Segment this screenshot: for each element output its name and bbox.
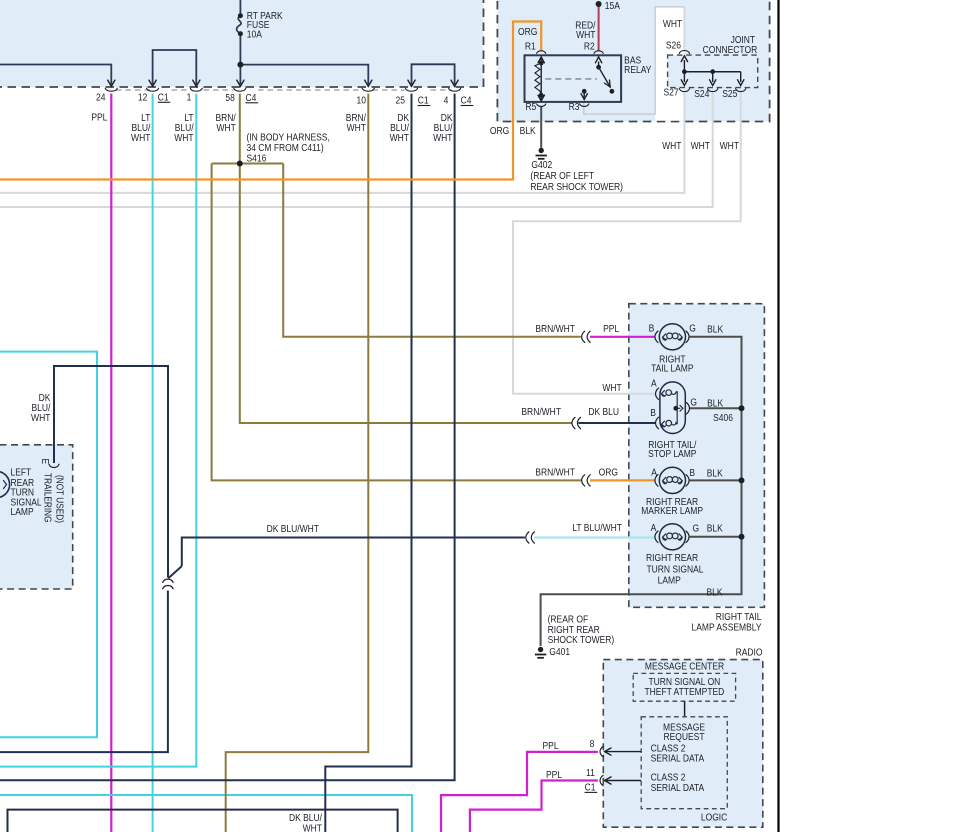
wire LT BLU/WHT from pin 12 bbox=[152, 94, 154, 832]
joint connector arrow up to S26 bbox=[683, 60, 685, 72]
svg-text:WHT: WHT bbox=[347, 122, 367, 133]
svg-text:LOGIC: LOGIC bbox=[701, 812, 728, 823]
pin 25 bbox=[405, 88, 417, 91]
svg-text:TURN SIGNAL: TURN SIGNAL bbox=[646, 564, 703, 575]
svg-text:S25: S25 bbox=[722, 88, 737, 99]
fuse RT PARK FUSE 10A bbox=[239, 0, 241, 16]
svg-text:BLK: BLK bbox=[707, 324, 724, 335]
svg-text:WHT: WHT bbox=[602, 382, 622, 393]
white overlap strip behind WHT/S26 labels bbox=[655, 6, 684, 120]
radio pin 11 bbox=[600, 775, 603, 785]
right rear marker lamp bulb bbox=[659, 467, 685, 493]
wire BLK from relay R5 to ground G402 bbox=[540, 106, 542, 148]
splice S25 pin bbox=[736, 89, 746, 92]
wire DK BLU/WHT turn signal feed branch bbox=[182, 538, 525, 567]
wire staple pins 12 and 1 bbox=[153, 50, 197, 85]
pin 58 bbox=[234, 88, 246, 91]
svg-text:BLK: BLK bbox=[707, 523, 724, 534]
svg-text:58: 58 bbox=[225, 92, 234, 103]
left rear turn signal lamp bulb (partial) bbox=[0, 471, 10, 497]
svg-text:LAMP ASSEMBLY: LAMP ASSEMBLY bbox=[692, 622, 762, 633]
wire DK BLU/WHT from pin 25 C1 bbox=[325, 94, 411, 832]
in-line connector marker lamp feed bbox=[582, 475, 585, 486]
pin 12 bbox=[147, 88, 159, 91]
wire feed to pin 24 bbox=[0, 65, 111, 85]
pin 10 bbox=[362, 88, 374, 91]
svg-text:PPL: PPL bbox=[91, 112, 107, 123]
svg-text:RIGHT REAR: RIGHT REAR bbox=[548, 624, 600, 635]
svg-text:(REAR OF LEFT: (REAR OF LEFT bbox=[530, 170, 594, 181]
svg-text:WHT: WHT bbox=[31, 412, 51, 423]
wire BRN/WHT S416 right branch to tail lamp feed bbox=[283, 164, 581, 337]
svg-text:WHT: WHT bbox=[576, 29, 596, 40]
page border right bbox=[777, 0, 779, 832]
svg-text:WHT: WHT bbox=[131, 132, 151, 143]
wire LT BLU/WHT from pin 1 bbox=[0, 94, 196, 767]
pin 4 bbox=[449, 88, 461, 91]
svg-text:12: 12 bbox=[138, 92, 147, 103]
svg-text:MARKER LAMP: MARKER LAMP bbox=[641, 506, 703, 517]
svg-text:B: B bbox=[689, 467, 695, 478]
wire WHT from S25 splice to right tail/stop lamp pin A bbox=[513, 92, 741, 394]
svg-text:CLASS 2: CLASS 2 bbox=[651, 743, 686, 754]
wire DK BLU/WHT from pin 4 C4 bbox=[0, 94, 455, 781]
svg-text:LAMP: LAMP bbox=[658, 575, 681, 586]
svg-text:A: A bbox=[651, 378, 657, 389]
right rear turn signal lamp pin G bbox=[686, 531, 689, 543]
svg-text:S27: S27 bbox=[663, 87, 678, 98]
wire BLK from turn signal lamp pin G bbox=[690, 536, 742, 538]
svg-text:DK BLU/: DK BLU/ bbox=[289, 812, 322, 823]
wire BRN/WHT S416 left branch to marker lamp feed bbox=[212, 164, 581, 481]
svg-text:10A: 10A bbox=[247, 29, 263, 40]
svg-text:SERIAL DATA: SERIAL DATA bbox=[651, 782, 705, 793]
wire PPL from pin 24 bbox=[110, 94, 112, 832]
connector C1/C4 dashed gray line bbox=[116, 89, 150, 91]
wire DK BLU/WHT diagonal into in-line connector bbox=[168, 566, 182, 578]
svg-text:(NOT USED): (NOT USED) bbox=[54, 475, 65, 523]
relay case bbox=[525, 55, 622, 102]
wire DK BLU/WHT below in-line connector bbox=[0, 591, 168, 753]
splice S406 dot bbox=[739, 405, 745, 411]
svg-text:DK BLU/WHT: DK BLU/WHT bbox=[267, 523, 320, 534]
wire ORG to right rear marker lamp pin A bbox=[590, 479, 655, 481]
svg-text:G402: G402 bbox=[531, 159, 552, 170]
wire PPL to right tail lamp pin B bbox=[590, 336, 655, 338]
svg-text:WHT: WHT bbox=[720, 140, 740, 151]
radio pin 8 arrow bbox=[605, 751, 642, 753]
junction dot marker lamp ground bbox=[739, 477, 745, 483]
svg-text:WHT: WHT bbox=[663, 18, 683, 29]
svg-text:BLK: BLK bbox=[520, 125, 537, 136]
svg-text:SHOCK TOWER): SHOCK TOWER) bbox=[548, 635, 615, 646]
svg-text:STOP LAMP: STOP LAMP bbox=[648, 448, 696, 459]
svg-text:10: 10 bbox=[357, 95, 366, 106]
in-line connector stop lamp feed bbox=[572, 417, 575, 428]
in-line connector turn signal feed bbox=[526, 532, 529, 543]
right tail lamp bulb bbox=[659, 324, 685, 350]
wire WHT from S27 splice bbox=[0, 92, 684, 193]
svg-text:WHT: WHT bbox=[691, 140, 711, 151]
svg-text:THEFT ATTEMPTED: THEFT ATTEMPTED bbox=[644, 686, 724, 697]
junction dot turn lamp ground bbox=[739, 534, 745, 540]
svg-text:BLK: BLK bbox=[706, 587, 723, 598]
splice S27 pin bbox=[679, 89, 689, 92]
svg-text:DK BLU: DK BLU bbox=[588, 406, 619, 417]
joint connector dashed box bbox=[668, 55, 758, 88]
svg-text:BLK: BLK bbox=[707, 398, 724, 409]
svg-text:SERIAL DATA: SERIAL DATA bbox=[651, 753, 705, 764]
splice S26 pin bbox=[679, 51, 689, 54]
splice S416 bar bbox=[212, 163, 284, 165]
wire BLK right tail lamp to common ground run bbox=[541, 337, 742, 646]
svg-text:4: 4 bbox=[444, 95, 449, 106]
svg-text:11: 11 bbox=[586, 767, 595, 778]
right tail lamp pin G bbox=[686, 331, 689, 343]
joint connector arrow down to S24 bbox=[712, 72, 714, 82]
svg-text:G: G bbox=[689, 323, 696, 334]
svg-text:B: B bbox=[650, 407, 656, 418]
BAS relay enclosure dashed box bbox=[497, 0, 769, 122]
wire link theft box to logic box bbox=[684, 701, 686, 717]
svg-text:15A: 15A bbox=[605, 0, 621, 11]
svg-text:G401: G401 bbox=[549, 647, 570, 658]
svg-text:34 CM FROM C411): 34 CM FROM C411) bbox=[247, 142, 324, 153]
svg-text:WHT: WHT bbox=[174, 132, 194, 143]
svg-text:C1: C1 bbox=[158, 92, 169, 103]
in-line connector tail lamp feed bbox=[582, 331, 585, 342]
svg-text:BRN/WHT: BRN/WHT bbox=[535, 323, 575, 334]
svg-text:REAR SHOCK TOWER): REAR SHOCK TOWER) bbox=[530, 181, 623, 192]
svg-text:S26: S26 bbox=[666, 40, 681, 51]
pin R5 bbox=[537, 104, 546, 107]
wire WHT from S24 splice bbox=[0, 92, 713, 207]
svg-text:C4: C4 bbox=[461, 95, 472, 106]
bottom module box bbox=[8, 810, 398, 832]
left rear turn signal lamp dashed box bbox=[0, 445, 73, 589]
svg-text:1: 1 bbox=[187, 92, 192, 103]
svg-text:WHT: WHT bbox=[303, 823, 323, 832]
svg-text:CLASS 2: CLASS 2 bbox=[651, 772, 686, 783]
svg-text:PPL: PPL bbox=[546, 769, 562, 780]
svg-text:BLK: BLK bbox=[707, 468, 724, 479]
in-line connector on DK BLU/WHT wire bbox=[163, 579, 173, 582]
svg-text:LEFT: LEFT bbox=[11, 467, 32, 478]
svg-text:A: A bbox=[651, 522, 657, 533]
splice S24 pin bbox=[708, 89, 718, 92]
svg-text:WHT: WHT bbox=[390, 132, 410, 143]
ground G402 bbox=[536, 148, 547, 159]
wire BLK from stop lamp pin G to splice S406 bbox=[690, 407, 742, 409]
svg-text:C4: C4 bbox=[246, 92, 257, 103]
svg-text:RELAY: RELAY bbox=[624, 65, 651, 76]
svg-text:BRN/WHT: BRN/WHT bbox=[521, 406, 561, 417]
ground G401 bbox=[535, 647, 546, 658]
svg-text:PPL: PPL bbox=[603, 323, 619, 334]
radio pin 8 bbox=[600, 746, 603, 756]
svg-text:R1: R1 bbox=[525, 41, 536, 52]
svg-text:REQUEST: REQUEST bbox=[663, 732, 704, 743]
svg-text:S416: S416 bbox=[247, 153, 267, 164]
svg-text:RIGHT REAR: RIGHT REAR bbox=[646, 553, 698, 564]
svg-text:24: 24 bbox=[96, 92, 105, 103]
wire LT BLU/WHT horizontal upper left bbox=[0, 352, 97, 738]
pin 24 bbox=[105, 88, 117, 91]
svg-text:R5: R5 bbox=[525, 101, 536, 112]
svg-text:WHT: WHT bbox=[216, 122, 236, 133]
right rear turn signal lamp bulb bbox=[659, 524, 685, 550]
svg-text:WHT: WHT bbox=[662, 140, 682, 151]
pin 1 bbox=[190, 88, 202, 91]
relay switch common arrow from R2 bbox=[598, 62, 600, 68]
wire BLK from marker lamp pin B bbox=[690, 479, 742, 481]
radio pin 11 arrow bbox=[605, 780, 642, 782]
wire BRN/WHT from pin 58 C4 to stop lamp feed bbox=[240, 94, 572, 423]
wire staple pins 25 and 4 bbox=[412, 64, 455, 84]
svg-text:BRN/WHT: BRN/WHT bbox=[535, 467, 575, 478]
svg-text:G: G bbox=[693, 523, 700, 534]
wire WHT from S26 splice upward bbox=[683, 7, 685, 53]
svg-text:C1: C1 bbox=[585, 782, 596, 793]
node 15A fuse dot bbox=[596, 1, 602, 7]
svg-text:(IN BODY HARNESS,: (IN BODY HARNESS, bbox=[247, 132, 330, 143]
wire LT BLU/WHT bottom jog bbox=[0, 795, 412, 832]
svg-text:S406: S406 bbox=[713, 413, 733, 424]
right rear marker lamp pin B bbox=[686, 475, 689, 487]
wire PPL from radio pin 11 C1 bbox=[470, 781, 598, 832]
svg-text:TAIL LAMP: TAIL LAMP bbox=[651, 363, 693, 374]
svg-text:RADIO: RADIO bbox=[736, 647, 763, 658]
svg-text:G: G bbox=[690, 397, 697, 408]
wire PPL from radio pin 8 bbox=[441, 752, 598, 832]
joint connector bus bbox=[684, 71, 740, 73]
right tail/stop lamp dual filament bulb bbox=[660, 382, 685, 434]
logic dashed box bbox=[641, 717, 727, 809]
svg-text:25: 25 bbox=[396, 95, 405, 106]
relay coil bbox=[538, 57, 544, 63]
svg-text:RIGHT TAIL: RIGHT TAIL bbox=[716, 611, 762, 622]
wire LT BLU/WHT to right rear turn signal lamp pin A bbox=[534, 536, 655, 538]
wire RED/WHT from fuse 15A to relay R2 bbox=[598, 4, 600, 51]
svg-text:R3: R3 bbox=[569, 101, 580, 112]
joint connector arrow down to S27 bbox=[683, 72, 685, 82]
relay mechanical link dashed bbox=[545, 78, 597, 80]
relay coil exit arrow to R5 bbox=[540, 95, 542, 99]
pin R3 bbox=[580, 104, 589, 107]
svg-text:C1: C1 bbox=[418, 95, 429, 106]
svg-text:MESSAGE CENTER: MESSAGE CENTER bbox=[645, 661, 725, 672]
svg-text:ORG: ORG bbox=[518, 26, 537, 37]
svg-text:E: E bbox=[40, 458, 51, 464]
svg-text:WHT: WHT bbox=[433, 132, 453, 143]
message center theft dashed box bbox=[633, 673, 735, 701]
right tail/stop lamp pin G bbox=[686, 403, 689, 415]
relay switch blade bbox=[599, 67, 611, 87]
svg-text:LAMP: LAMP bbox=[11, 506, 34, 517]
joint connector arrow down to S25 bbox=[740, 72, 742, 82]
svg-text:ORG: ORG bbox=[599, 467, 618, 478]
wire from fuse to pins 58 and 10 bbox=[240, 65, 368, 85]
svg-text:CONNECTOR: CONNECTOR bbox=[703, 44, 758, 55]
right tail lamp assembly dashed box bbox=[629, 304, 765, 608]
relay contact to R3 bbox=[582, 89, 587, 94]
splice S416 junction dot bbox=[237, 161, 243, 167]
wire DK BLU to right tail/stop lamp pin B bbox=[578, 422, 655, 424]
svg-text:PPL: PPL bbox=[543, 740, 559, 751]
body control module box (top left) bbox=[0, 0, 484, 87]
svg-text:LT BLU/WHT: LT BLU/WHT bbox=[572, 522, 622, 533]
svg-text:TRAILERING: TRAILERING bbox=[42, 473, 53, 522]
wire DK BLU/WHT from left rear lamp pin E bbox=[54, 366, 168, 578]
svg-text:(REAR OF: (REAR OF bbox=[548, 614, 589, 625]
svg-text:S24: S24 bbox=[694, 88, 709, 99]
svg-text:R2: R2 bbox=[584, 41, 595, 52]
radio dashed box bbox=[603, 660, 763, 828]
svg-text:ORG: ORG bbox=[490, 125, 509, 136]
svg-text:B: B bbox=[649, 323, 655, 334]
wire ORG to relay R1 bbox=[0, 22, 541, 180]
svg-text:8: 8 bbox=[590, 738, 595, 749]
wire BRN/WHT from pin 10 bbox=[226, 94, 369, 832]
